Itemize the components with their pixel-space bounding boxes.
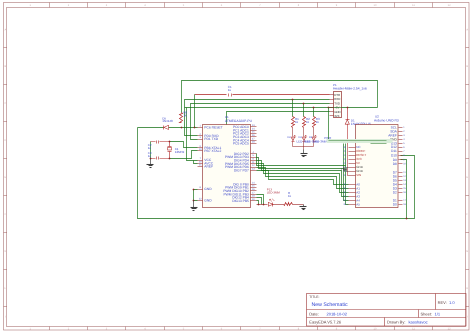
U2 pin 22 5V	[349, 163, 356, 165]
resistor R6	[180, 113, 183, 123]
P1 pin 5 GND	[330, 111, 334, 113]
svg-text:A5: A5	[356, 202, 360, 206]
wire PB5 drop	[257, 201, 259, 205]
svg-text:DIG7 PD7: DIG7 PD7	[234, 169, 249, 173]
U2 pin D7	[399, 172, 403, 174]
wire +5V top loop	[182, 81, 378, 113]
svg-text:GND: GND	[204, 199, 212, 203]
svg-text:Date:: Date:	[309, 311, 319, 316]
ground U2	[347, 168, 349, 172]
U1 pin 23 PC0 ADC0	[251, 126, 257, 128]
U2 pin D3	[399, 188, 403, 190]
wire DTR-C1 red net	[195, 94, 227, 96]
wire D1 to VIN	[348, 125, 349, 176]
U1 pin 11 PWM DIG5 PD5	[251, 163, 257, 165]
svg-text:REV:: REV:	[438, 300, 447, 305]
svg-text:Sheet:: Sheet:	[421, 311, 433, 316]
svg-text:D4: D4	[309, 136, 313, 139]
svg-text:C: C	[466, 102, 468, 105]
wire R7 to ground	[293, 204, 304, 206]
U1 pin 18 DIG12 PB4	[251, 197, 257, 199]
ground P13	[303, 205, 305, 207]
U2 pin D1	[399, 200, 403, 202]
wire XTAL2 net	[151, 158, 156, 160]
wire MCU top pin to header GND	[227, 112, 330, 125]
U2 pin 24 RESET	[349, 155, 356, 157]
U2 pin 20 GND	[349, 171, 356, 173]
connector P1 header	[334, 92, 342, 118]
U2 pin D8	[399, 163, 403, 165]
svg-text:VIN: VIN	[356, 173, 361, 177]
svg-text:PC5 ADC5: PC5 ADC5	[233, 142, 249, 146]
svg-text:H: H	[4, 287, 6, 290]
U1 pin 3 PD1 TXD	[198, 139, 203, 141]
U1 pin 6 DIG4 PD4	[251, 160, 257, 162]
wire reset loop left-bottom-right	[138, 128, 415, 219]
U2 pin D11	[399, 151, 403, 153]
U1 pin 24 PC1 ADC1	[251, 130, 257, 132]
U2 pin 30 A2	[349, 192, 356, 194]
svg-text:AREF: AREF	[204, 165, 213, 169]
U2 pin D9	[399, 159, 403, 161]
diode D5	[163, 126, 165, 130]
svg-text:3V3: 3V3	[334, 114, 340, 118]
svg-text:B: B	[5, 65, 7, 68]
U2 pin 29 A1	[349, 188, 356, 190]
U1 pin 10 PB7 XTAL2	[198, 150, 203, 152]
svg-text:Header-Male-2.54_1x6: Header-Male-2.54_1x6	[333, 87, 367, 91]
wire +5V rail	[185, 107, 378, 109]
svg-text:1u: 1u	[148, 154, 152, 158]
U1 pin 4 DIG2 PD2	[251, 153, 257, 155]
U2 pin D13	[399, 143, 403, 145]
ground LEDs	[303, 150, 305, 154]
svg-text:H: H	[466, 287, 468, 290]
svg-text:PB7 XTAL2: PB7 XTAL2	[204, 149, 221, 153]
U2 pin D5	[399, 180, 403, 182]
svg-text:1u: 1u	[148, 146, 152, 150]
P1 pin 3 TXD	[330, 103, 334, 105]
wire band net	[329, 140, 387, 142]
svg-text:Arduino UNO R3: Arduino UNO R3	[374, 118, 399, 122]
resistor R2	[303, 117, 306, 128]
svg-text:New Schematic: New Schematic	[312, 302, 348, 308]
U2 pin SDA	[399, 131, 403, 133]
op-amp U1 ATMEGA328P-PU	[203, 125, 251, 208]
svg-text:1.0: 1.0	[449, 300, 455, 305]
U1 pin 15 PWM DIG9 PB1	[251, 187, 257, 189]
svg-text:PC6 RESET: PC6 RESET	[204, 126, 222, 130]
capacitor C1	[228, 94, 230, 97]
svg-text:D10: D10	[391, 153, 397, 157]
U2 pin 21 GND	[349, 167, 356, 169]
svg-text:D2: D2	[288, 136, 292, 139]
P1 pin 1 DTR	[330, 94, 334, 96]
svg-text:1k: 1k	[316, 120, 320, 124]
U1 pin 2 PD0 RXD	[198, 135, 203, 137]
svg-text:ATMEGA328P-PU: ATMEGA328P-PU	[225, 119, 253, 123]
wire PB3 drop	[257, 195, 264, 205]
wire VCC branch	[187, 108, 198, 161]
U1 pin 27 PC4 ADC4	[251, 140, 257, 142]
svg-text:1k: 1k	[183, 114, 187, 118]
title block	[307, 294, 467, 327]
U1 pin 14 DIG 8 PB0	[251, 184, 257, 186]
wire +5V through header	[334, 107, 342, 109]
wire R3 top	[313, 108, 315, 117]
wire R2 to LED	[303, 128, 305, 137]
LED D3	[302, 137, 305, 141]
U2 pin SCL	[399, 127, 403, 129]
svg-text:C: C	[4, 102, 6, 105]
capacitor C3	[156, 157, 158, 160]
wire LED join	[293, 146, 314, 148]
U2 pin D2	[399, 192, 403, 194]
svg-text:GND: GND	[204, 187, 212, 191]
U2 pin 33 A5	[349, 204, 356, 206]
U1 pin 26 PC3 ADC3	[251, 136, 257, 138]
ground crystal	[150, 159, 152, 165]
U1 pin 25 PC2 ADC2	[251, 133, 257, 135]
wire RESET row	[138, 127, 164, 129]
wire +5V to band	[328, 108, 330, 141]
module U2 Arduino UNO R3	[356, 125, 399, 208]
U1 pin 28 PC5 ADC5	[251, 143, 257, 145]
P1 pin 6 3V3	[330, 115, 334, 117]
resistor R1	[292, 117, 295, 128]
net highlight band	[327, 139, 393, 143]
wire D9 branch	[401, 160, 407, 219]
U1 pin 9 PB6 XTAL1	[198, 147, 203, 149]
U2 pin D12	[399, 147, 403, 149]
svg-text:D0: D0	[393, 203, 397, 207]
wire AVCC jog	[194, 161, 198, 164]
U1 pin 20 AVCC	[198, 163, 203, 165]
capacitor C2	[156, 141, 158, 144]
U1 pin 8 GND	[198, 189, 203, 191]
resistor R3	[313, 117, 316, 128]
resistor R7	[284, 203, 293, 206]
wire RXD net	[185, 100, 330, 136]
svg-text:1N4148: 1N4148	[162, 119, 173, 123]
wire R1 to LED	[292, 128, 294, 137]
U1 pin 22 GND	[198, 200, 203, 202]
wire DIG bundle	[257, 154, 349, 205]
U2 pin 31 A3	[349, 196, 356, 198]
wire LED row	[257, 204, 268, 206]
svg-text:1u: 1u	[228, 88, 232, 92]
U1 pin 5 PWM DIG3 PD3	[251, 157, 257, 159]
svg-text:B: B	[466, 65, 468, 68]
U1 pin 21 AREF	[198, 166, 203, 168]
U1 pin 7 VCC	[198, 160, 203, 162]
P1 pin 4 +5V	[330, 107, 334, 109]
svg-text:D: D	[466, 139, 468, 142]
crystal X1	[169, 142, 171, 147]
svg-text:DIG13 PB5: DIG13 PB5	[232, 199, 249, 203]
wire R2 top	[303, 104, 305, 117]
U2 pin 32 A4	[349, 200, 356, 202]
U2 pin 26 NC	[349, 147, 356, 149]
U2 pin AREF	[399, 135, 403, 137]
svg-text:Drawn By:: Drawn By:	[387, 320, 405, 325]
svg-text:G: G	[466, 250, 468, 253]
svg-text:1k: 1k	[306, 120, 310, 124]
LED D2	[291, 137, 294, 141]
svg-text:D: D	[4, 139, 6, 142]
wire crystal ground side	[150, 142, 152, 159]
U1 pin 1 PC6 RESET	[198, 127, 203, 129]
svg-text:D8: D8	[393, 162, 397, 166]
svg-text:LED-3MM: LED-3MM	[267, 191, 281, 195]
svg-text:kaoshavoc: kaoshavoc	[409, 320, 428, 325]
U2 pin D6	[399, 176, 403, 178]
svg-text:E: E	[5, 176, 7, 179]
svg-text:TITLE:: TITLE:	[309, 295, 319, 299]
U1 pin 16 PWM DIG10 PB2	[251, 190, 257, 192]
svg-text:G: G	[4, 250, 6, 253]
svg-text:E: E	[466, 176, 468, 179]
wire R1 top	[292, 100, 294, 117]
svg-text:D3: D3	[299, 136, 303, 139]
wire +5V junctions	[328, 107, 330, 109]
wire C1 to RESET vertical	[194, 95, 196, 128]
U1 pin 19 DIG13 PB5	[251, 200, 257, 202]
U2 pin D4	[399, 184, 403, 186]
svg-text:D2: D2	[393, 191, 397, 195]
U2 pin D10	[399, 155, 403, 157]
U2 pin 25 IOREF	[349, 151, 356, 153]
U1 pin 17 PWM DIG11 PB3	[251, 194, 257, 196]
wire XTAL1 net	[151, 141, 156, 143]
wire band risers	[345, 144, 347, 166]
LED D4	[312, 137, 315, 141]
wire LED to R7	[273, 204, 284, 206]
U2 pin 19 VIN	[349, 175, 356, 177]
U2 pin 23 3V3	[349, 159, 356, 161]
U2 pin D0	[399, 204, 403, 206]
P1 pin 2 RXD	[330, 99, 334, 101]
ground below U1	[194, 190, 198, 201]
U2 pin 28 A0	[349, 184, 356, 186]
svg-text:A: A	[466, 28, 468, 31]
U1 pin 13 DIG7 PD7	[251, 170, 257, 172]
svg-text:2018-10-02: 2018-10-02	[327, 311, 348, 316]
diode D1	[347, 108, 349, 120]
svg-text:12MHz: 12MHz	[175, 150, 185, 154]
wire R3 to LED	[313, 128, 315, 137]
svg-text:EasyEDA V5.7.26: EasyEDA V5.7.26	[309, 320, 342, 325]
svg-text:1/1: 1/1	[435, 311, 441, 316]
svg-text:PD1 TXD: PD1 TXD	[204, 137, 218, 141]
wire TXD net	[191, 104, 330, 140]
wire PB4 drop	[257, 198, 262, 205]
svg-text:A: A	[5, 28, 7, 31]
LED P13	[268, 202, 273, 206]
U2 pin GND*	[399, 139, 403, 141]
U1 pin 12 PWM DIG6 PD6	[251, 167, 257, 169]
svg-text:1k: 1k	[295, 120, 299, 124]
